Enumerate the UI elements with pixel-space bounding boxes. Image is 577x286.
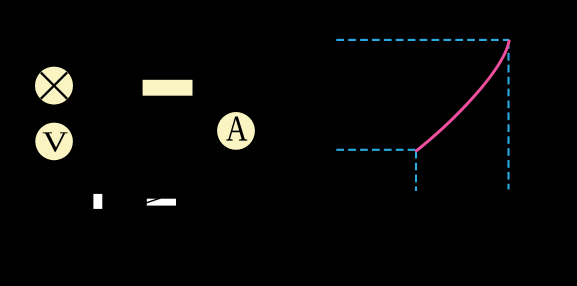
dashed guide left vertical	[415, 151, 417, 191]
rheostat arrow shaft	[145, 198, 162, 204]
dashed guide lower horizontal	[336, 149, 415, 151]
ammeter A	[217, 112, 255, 150]
dashed guide top horizontal	[336, 39, 509, 41]
dashed guide right vertical	[507, 41, 509, 190]
rheostat slider knob	[93, 194, 102, 209]
battery cell plate	[143, 80, 193, 96]
rheostat contact bar	[145, 198, 177, 206]
voltmeter V	[35, 123, 73, 161]
I-U curve	[416, 40, 510, 152]
lamp L1	[35, 67, 73, 105]
